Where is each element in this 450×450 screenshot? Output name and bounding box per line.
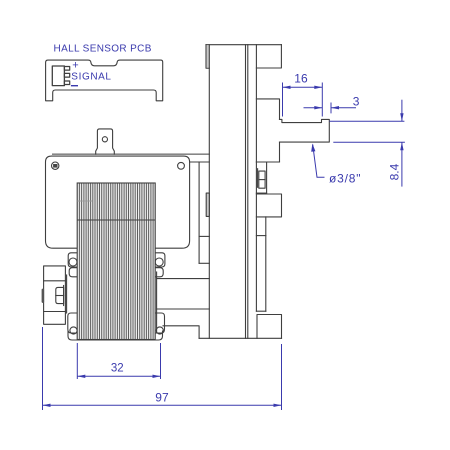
dim 3 extension right xyxy=(330,103,332,114)
upper-right ear rivet xyxy=(155,258,163,266)
arrow 3 right (points left) xyxy=(331,106,339,109)
connector pin 2 xyxy=(64,73,69,77)
dim 8.4 extension bottom xyxy=(333,141,405,143)
svg-text:+: + xyxy=(72,60,78,72)
dim 16 extension right xyxy=(321,83,323,117)
side band line left xyxy=(66,275,68,313)
gearbox bottom-left step xyxy=(163,326,199,339)
boss bottom / pocket top line xyxy=(256,161,279,163)
bracket flange top line xyxy=(190,161,210,163)
svg-text:97: 97 xyxy=(155,391,169,405)
lamination stack outline (over hatch) xyxy=(77,183,155,340)
lower-left ear rivet xyxy=(70,327,77,334)
gearbox mid block xyxy=(256,194,281,217)
lower-right ear rivet xyxy=(156,327,163,334)
svg-text:8.4: 8.4 xyxy=(387,163,401,180)
lamination divider line xyxy=(77,219,155,221)
motor bracket top flange line xyxy=(53,153,210,155)
dim 32 extension left xyxy=(76,343,78,379)
svg-text:3: 3 xyxy=(353,95,360,109)
dim 32 line xyxy=(77,375,160,377)
coil faint line xyxy=(77,200,92,202)
gearbox top edge xyxy=(206,44,281,46)
gearbox top-left step xyxy=(206,45,209,68)
gearbox lower strip right edge xyxy=(265,217,267,311)
arrow 32 right xyxy=(153,375,161,378)
arrow leader diameter xyxy=(311,144,315,152)
upper-left ear rivet xyxy=(69,258,77,266)
strip divider xyxy=(256,235,265,237)
upper-right ear xyxy=(155,253,165,267)
svg-text:SIGNAL: SIGNAL xyxy=(71,72,111,83)
dim 8.4 line lower xyxy=(401,142,403,186)
svg-text:16: 16 xyxy=(294,72,308,86)
upper-left ear xyxy=(68,253,77,267)
bracket flange mid line xyxy=(199,235,209,237)
dim 97 line xyxy=(43,404,282,406)
dim 16 extension left xyxy=(282,83,284,117)
gearbox inner plate line a xyxy=(245,45,247,339)
dim 8.4 extension top xyxy=(329,120,404,122)
arrow 16 right xyxy=(314,86,322,89)
gearbox top-right block xyxy=(256,45,281,68)
lower-left ear xyxy=(68,313,77,333)
gearbox top-left step shading xyxy=(207,45,209,67)
hex screw head mid line xyxy=(259,179,265,181)
arrow 32 left xyxy=(77,375,85,378)
screw pocket right edge xyxy=(266,163,268,193)
bolt tip xyxy=(42,289,45,303)
arrow 3 left (points right) xyxy=(314,106,322,109)
bracket lower flange bottom line xyxy=(157,308,210,310)
svg-text:32: 32 xyxy=(111,363,124,375)
screw drive mark left xyxy=(53,164,57,168)
leader line shaft diameter xyxy=(313,145,325,178)
left protrusion block xyxy=(44,266,66,324)
bracket screw hole right xyxy=(178,162,185,169)
stack outline xyxy=(77,183,155,340)
motor bracket rounded body xyxy=(46,156,190,248)
arrow 97 left xyxy=(43,404,51,407)
hex nut mid line xyxy=(56,295,64,297)
lamination stack underlay xyxy=(77,183,155,340)
dim 3 line right part xyxy=(331,107,356,109)
hall sensor pcb outline xyxy=(46,60,163,101)
bracket right flange vertical xyxy=(198,162,200,263)
dim 16 line xyxy=(283,86,323,88)
arrow 8.4 down xyxy=(400,113,403,121)
label minus xyxy=(71,85,78,87)
connector pin 1 xyxy=(64,67,69,71)
strip bottom xyxy=(256,310,265,312)
output shaft xyxy=(280,119,330,142)
hex nut on bolt xyxy=(56,287,64,303)
hex screw head xyxy=(259,171,265,188)
washer line xyxy=(63,286,65,306)
bearing boss xyxy=(256,99,279,162)
arrow 8.4 up xyxy=(400,142,403,150)
gearbox cover edge xyxy=(255,45,257,312)
lamination hatch xyxy=(79,183,153,340)
protrusion pocket top line xyxy=(44,280,66,282)
terminal tab hole xyxy=(102,137,107,142)
side band line right xyxy=(156,272,158,333)
gearbox foot xyxy=(257,315,282,339)
gearbox bottom edge xyxy=(199,337,281,339)
terminal tab on top xyxy=(96,129,115,154)
stack bottom band xyxy=(68,331,163,340)
svg-text:HALL SENSOR PCB: HALL SENSOR PCB xyxy=(54,44,152,55)
hex screw flat line xyxy=(257,169,259,188)
pcb connector body xyxy=(52,66,64,86)
bracket flange bottom line xyxy=(199,262,209,264)
dim 8.4 line upper xyxy=(401,100,403,122)
screw pocket bottom xyxy=(256,192,266,194)
gearbox rear plate thin rect xyxy=(206,193,209,216)
arrow 97 right xyxy=(274,404,282,407)
gearbox left edge xyxy=(208,45,210,339)
arrow 16 left xyxy=(283,86,291,89)
lower-right ear xyxy=(155,313,164,333)
bracket screw hole left xyxy=(52,162,59,169)
upper-left lobe xyxy=(69,268,77,277)
gearbox inner plate line b xyxy=(247,45,249,339)
arrowheads xyxy=(43,86,404,407)
svg-text:ø3/8": ø3/8" xyxy=(329,171,361,185)
upper-right lobe xyxy=(155,268,163,277)
dim 97 extension left xyxy=(42,327,44,410)
dim 97 extension right xyxy=(281,344,283,410)
dim 32 extension right xyxy=(160,343,162,379)
dim 3 line left part xyxy=(304,107,323,109)
bracket lower flange top line xyxy=(157,278,210,280)
protrusion pocket bottom line xyxy=(44,311,66,313)
connector pin 3 xyxy=(64,81,69,85)
